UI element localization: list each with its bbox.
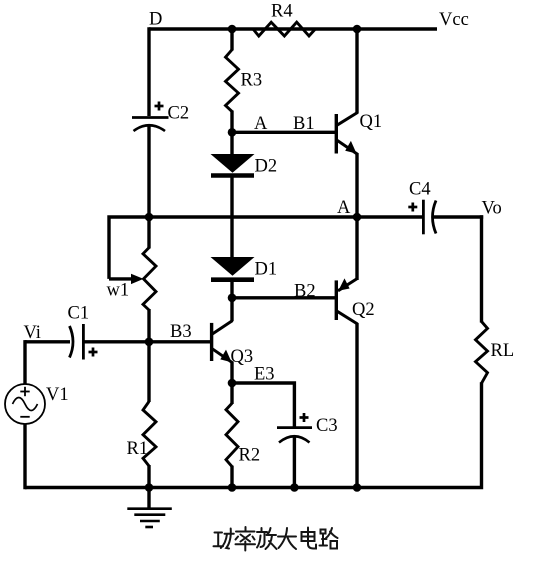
caption 功率放大电路 drawn as strokes (214, 527, 338, 551)
capacitor C4 (423, 200, 436, 235)
wire Q2 collector down to bottom rail (355, 323, 358, 488)
node junction bottom rail / C3 (290, 483, 299, 492)
potentiometer w1 wiper arrow wire (109, 277, 132, 280)
node junction B2 (228, 294, 237, 303)
svg-text:R1: R1 (127, 439, 149, 459)
svg-text:w1: w1 (107, 281, 130, 301)
svg-text:D1: D1 (255, 260, 278, 280)
resistor R1 (143, 402, 156, 467)
char lv (236, 527, 256, 551)
node junction top rail / R3 (228, 25, 237, 34)
wire input Vi to C1 (25, 340, 70, 343)
wire right rail Vo corner down to RL (480, 215, 483, 322)
wire Q2 emitter from node A (355, 217, 358, 280)
svg-text:V1: V1 (46, 385, 69, 405)
wire node A down to D2 (230, 132, 233, 155)
svg-text:A: A (254, 114, 268, 134)
resistor R3 (226, 50, 239, 112)
wire w1 down to B3 junction (147, 309, 150, 343)
wire D2 to D1 (crosses output wire) (230, 177, 233, 258)
svg-text:B3: B3 (170, 322, 192, 342)
diode D2 (211, 154, 255, 176)
node junction ground rail at R1 (145, 483, 154, 492)
wire R1 down to ground rail (147, 465, 150, 488)
svg-text:A: A (337, 198, 351, 218)
capacitor C1 (70, 324, 84, 360)
wire C2 down to junction (147, 125, 150, 218)
resistor R2 (226, 403, 238, 466)
plus sign of C2 (155, 102, 164, 111)
capacitor C2 (132, 118, 169, 132)
wire output line left corner to node A right (109, 217, 357, 279)
plus sign of C1 (89, 348, 98, 357)
wire R2 down to bottom rail (230, 466, 233, 488)
wire E3 junction to C3 (232, 383, 294, 427)
capacitor C3 (277, 428, 312, 443)
wire top rail down to R3 (230, 29, 233, 51)
svg-text:Vi: Vi (24, 323, 41, 343)
wire left rail segment D down to C2 (147, 27, 150, 116)
wire top rail D to Vcc (149, 27, 437, 30)
wire Q3 emitter down to E3 junction (230, 362, 233, 385)
node junction bottom rail / R2 (228, 483, 237, 492)
svg-text:R4: R4 (271, 1, 293, 21)
wire Q1 collector up to top rail (355, 29, 358, 114)
wire node A to C4 left plate (357, 215, 423, 218)
plus sign of C3 (300, 413, 309, 422)
wire D1 down to B2 junction (230, 281, 233, 299)
svg-text:D2: D2 (255, 157, 278, 177)
resistor R4 (253, 22, 315, 36)
node junction E3 (228, 379, 237, 388)
source V1 (5, 384, 45, 424)
node junction left rail / output wire (145, 213, 154, 222)
svg-text:Vcc: Vcc (439, 10, 469, 30)
wire Q1 emitter down to node A right (355, 153, 358, 217)
wire Vi corner down to V1 (23, 340, 26, 384)
wire C3 down to bottom rail (293, 436, 296, 488)
diode D1 (211, 257, 255, 280)
node junction top rail / Q1 collector (353, 25, 362, 34)
svg-text:B2: B2 (294, 282, 316, 302)
wire R3 down to node A (230, 111, 233, 133)
ground (127, 488, 172, 528)
svg-text:B1: B1 (293, 114, 315, 134)
svg-text:Q3: Q3 (231, 347, 254, 367)
wire base of Q1 from node A (232, 131, 336, 134)
svg-text:C4: C4 (409, 180, 431, 200)
char fang (257, 528, 277, 549)
char lu (320, 528, 338, 549)
plus sign of C4 (408, 203, 417, 212)
wire C4 right plate to Vo corner (433, 215, 483, 218)
svg-text:C1: C1 (68, 304, 90, 324)
wire C1 to Q3 base (84, 340, 211, 343)
node A right junction (353, 213, 362, 222)
wire B2 junction down to Q3 collector (230, 296, 233, 321)
svg-text:C2: C2 (168, 104, 190, 124)
wire E3 down to R2 (230, 382, 233, 404)
svg-text:Q1: Q1 (360, 112, 383, 132)
resistor RL (476, 322, 488, 384)
transistor Q2 (336, 278, 357, 324)
svg-text:Q2: Q2 (352, 300, 375, 320)
svg-text:R3: R3 (241, 71, 263, 91)
node junction bottom rail / Q2 collector (353, 483, 362, 492)
wire V1 down to bottom rail (23, 424, 26, 489)
wire junction down to R1 (147, 340, 150, 402)
svg-text:C3: C3 (316, 416, 338, 436)
char da (278, 528, 296, 549)
transistor Q1 (336, 113, 357, 155)
wire junction down to w1 (147, 215, 150, 249)
potentiometer w1 wiper arrowhead (131, 274, 144, 284)
node A left junction (228, 128, 237, 137)
svg-text:Vo: Vo (482, 199, 502, 219)
char gong (214, 529, 234, 549)
svg-text:E3: E3 (254, 364, 275, 384)
wire base of Q2 from B2 junction (232, 296, 336, 299)
svg-text:R2: R2 (239, 446, 261, 466)
transistor Q3 (212, 321, 233, 363)
svg-text:RL: RL (491, 341, 515, 361)
char dian (302, 528, 317, 549)
svg-text:D: D (149, 10, 162, 30)
potentiometer w1 resistor body (143, 248, 156, 310)
wire RL down to bottom rail (25, 382, 482, 487)
node junction B3 wire / left rail (145, 338, 154, 347)
